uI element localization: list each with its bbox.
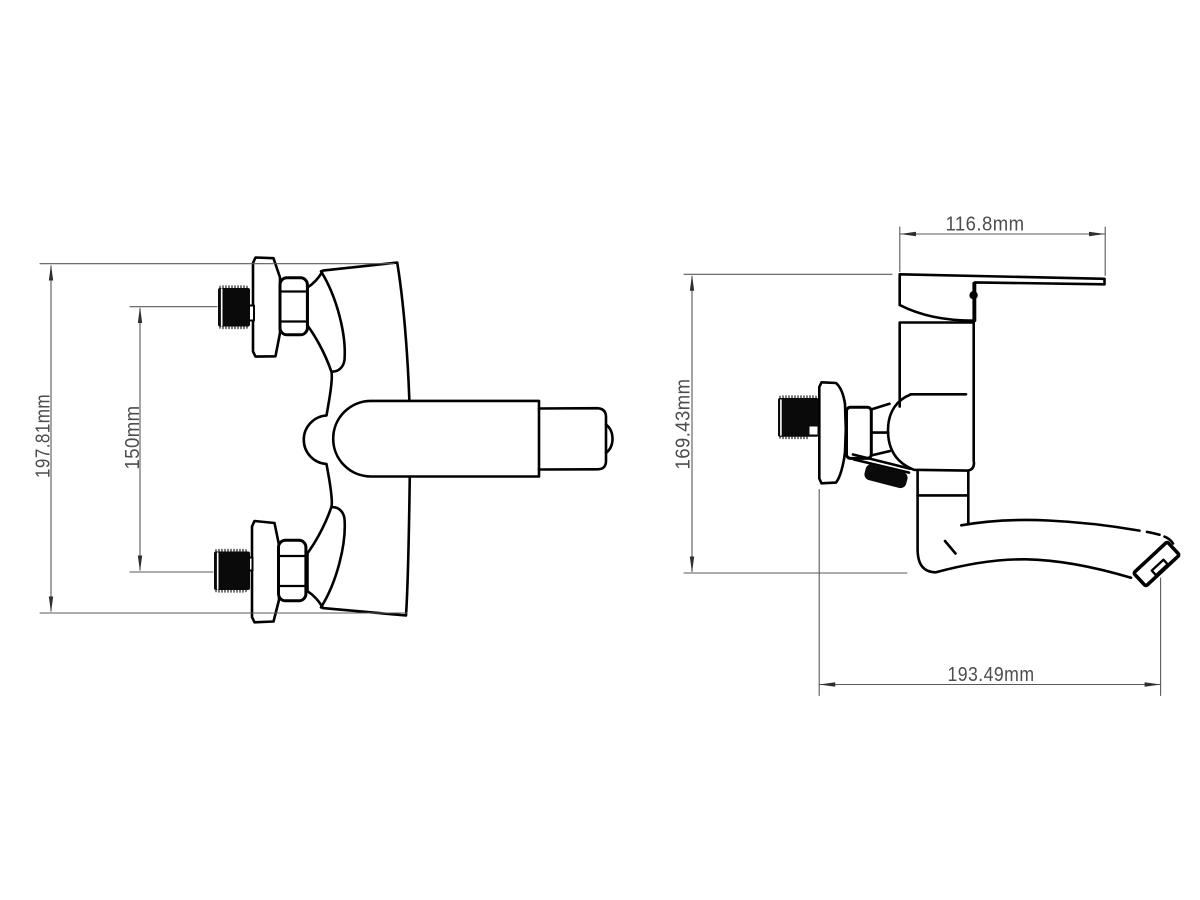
dimension 197.81mm line bbox=[50, 266, 52, 611]
upper wall flange (front) bbox=[253, 258, 280, 357]
svg-text:169.43mm: 169.43mm bbox=[673, 379, 695, 470]
knurled wall nipple bbox=[778, 398, 819, 437]
lower wall flange (front) bbox=[252, 521, 279, 622]
dimension 150mm line bbox=[139, 309, 141, 571]
hex nut (side) bbox=[847, 407, 872, 458]
upper connector step bbox=[248, 306, 255, 321]
spout nose end arc bbox=[606, 425, 613, 454]
wall union cone lines bbox=[848, 404, 890, 456]
dimension 197.81mm extension lines bbox=[40, 264, 407, 613]
spout root left edge and heel bbox=[918, 471, 1131, 578]
arrowheads 193.49mm bbox=[819, 682, 1160, 686]
svg-text:150mm: 150mm bbox=[122, 406, 144, 470]
handle cap bottom curve bbox=[900, 305, 974, 321]
dimension 169.43mm line bbox=[691, 277, 693, 572]
upper crescent highlight bbox=[321, 271, 345, 371]
wall flange (side) bbox=[819, 382, 846, 483]
spout nose rectangle (front) bbox=[539, 408, 606, 469]
cartridge housing shoulder line bbox=[911, 393, 967, 396]
lever set-screw dot bbox=[969, 291, 977, 299]
dimension 169.43mm extension lines bbox=[684, 274, 907, 573]
handle stadium (front) bbox=[333, 401, 539, 477]
svg-text:193.49mm: 193.49mm bbox=[948, 664, 1035, 686]
svg-text:116.8mm: 116.8mm bbox=[946, 214, 1025, 236]
lower connector step bbox=[246, 558, 253, 571]
spout top edge bbox=[961, 520, 1139, 531]
lower crescent highlight bbox=[321, 507, 345, 607]
arrowheads 197.81mm bbox=[49, 265, 53, 613]
spout surface tick bbox=[945, 541, 956, 554]
spout tip hook bbox=[1165, 537, 1174, 544]
dimension 193.49mm line bbox=[819, 684, 1160, 686]
arrowheads 169.43mm bbox=[690, 275, 694, 573]
cartridge housing bulge bbox=[888, 394, 974, 470]
diverter collar lines bbox=[853, 455, 910, 473]
aerator block bbox=[1134, 542, 1180, 587]
dimension 116.8mm extension lines bbox=[900, 227, 1105, 276]
lower hex nut (front) bbox=[279, 540, 306, 601]
dimension 116.8mm line bbox=[900, 233, 1105, 235]
spout root right edge bbox=[967, 471, 970, 523]
valve body cylinder (side) bbox=[900, 283, 974, 461]
faucet body (front view) bbox=[304, 263, 410, 616]
lower knurled nut bbox=[214, 552, 250, 591]
svg-text:197.81mm: 197.81mm bbox=[33, 394, 55, 478]
upper knurled nut bbox=[218, 288, 250, 327]
diverter knob bbox=[863, 463, 909, 490]
dimension 193.49mm extension lines bbox=[819, 490, 1160, 696]
dimension 150mm extension lines bbox=[130, 307, 217, 572]
handle cap and lever (side) bbox=[900, 274, 1105, 321]
spout top edge dash bbox=[1147, 532, 1160, 535]
spout root joint line bbox=[918, 494, 968, 497]
upper hex nut (front) bbox=[280, 278, 307, 335]
lower hex nut facet lines bbox=[279, 556, 306, 586]
upper hex nut facet lines bbox=[281, 292, 308, 322]
arrowheads 116.8mm bbox=[900, 232, 1105, 236]
arrowheads 150mm bbox=[138, 307, 142, 572]
